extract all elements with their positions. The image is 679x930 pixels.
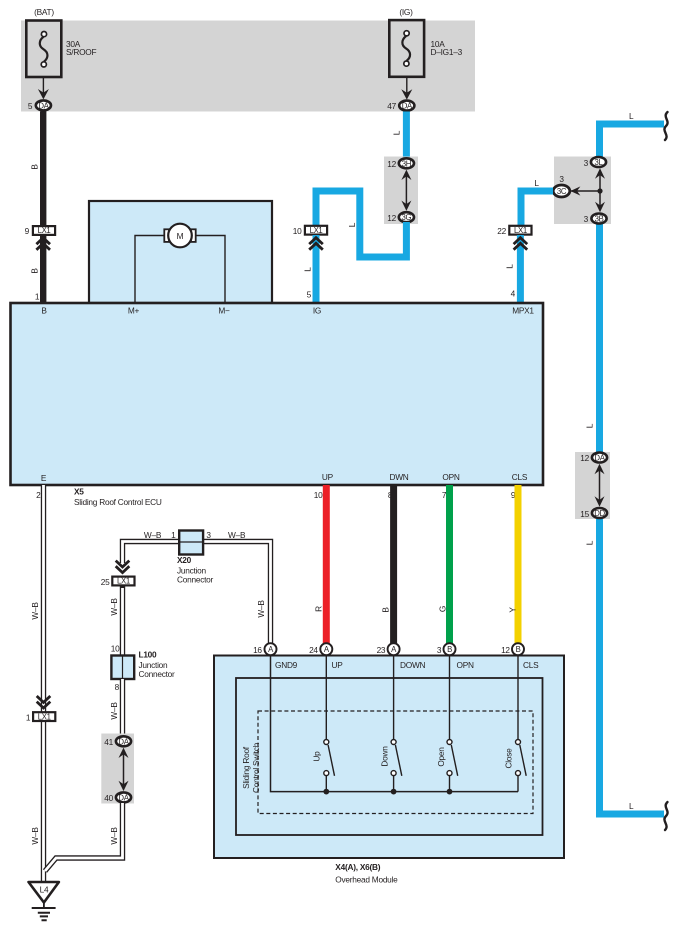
svg-text:Overhead Module: Overhead Module <box>335 875 398 885</box>
SECTION: battery column <box>25 7 97 303</box>
connector DD right <box>580 508 607 519</box>
connector B pin12 <box>501 643 524 655</box>
svg-text:M+: M+ <box>128 306 140 316</box>
wire Y cls <box>515 485 522 644</box>
svg-text:10: 10 <box>293 226 302 236</box>
SECTION: mpx column <box>497 178 553 303</box>
svg-text:W–B: W–B <box>144 530 162 540</box>
svg-text:L: L <box>505 264 515 269</box>
SECTION: module <box>214 643 564 884</box>
connector A pin23 <box>377 643 400 655</box>
double arrow 3H 3G <box>401 170 411 211</box>
chevron up below LX1 pin9 <box>36 236 50 303</box>
svg-text:OPN: OPN <box>457 660 474 670</box>
chevron up below LX1 pin10 <box>309 235 323 303</box>
svg-text:LX1: LX1 <box>310 226 323 235</box>
connector LX1 pin25 <box>101 577 135 587</box>
svg-text:Sliding Roof Control ECU: Sliding Roof Control ECU <box>74 497 162 507</box>
svg-text:4: 4 <box>511 289 516 299</box>
svg-text:W–B: W–B <box>109 827 119 845</box>
svg-text:DD: DD <box>594 509 605 518</box>
svg-text:B: B <box>41 306 47 316</box>
svg-text:10: 10 <box>111 644 120 654</box>
svg-text:GND9: GND9 <box>275 660 298 670</box>
svg-text:3C: 3C <box>557 187 567 196</box>
motor leads <box>135 236 225 303</box>
svg-text:12: 12 <box>387 213 396 223</box>
chevron down above LX1 pin1 <box>37 696 51 708</box>
svg-text:B: B <box>30 268 40 274</box>
chevron up below LX1 pin22 <box>514 235 528 303</box>
svg-text:B: B <box>516 645 521 654</box>
svg-text:3B: 3B <box>595 215 604 224</box>
connector A pin16 <box>253 643 276 655</box>
svg-text:R: R <box>313 606 323 612</box>
svg-text:DA: DA <box>594 454 605 463</box>
junction shield DA DA left <box>101 734 134 804</box>
svg-text:Up: Up <box>312 751 322 762</box>
wire R up <box>323 485 330 644</box>
svg-text:3: 3 <box>584 158 589 168</box>
wire L trunk 3B to DA <box>596 222 603 454</box>
fuse S/ROOF 30A <box>26 21 96 78</box>
switch open <box>436 655 458 795</box>
svg-text:Sliding Roof: Sliding Roof <box>241 746 251 789</box>
junction shield 3H 3G <box>384 157 418 225</box>
svg-text:X4(A), X6(B): X4(A), X6(B) <box>335 862 380 872</box>
wire W-B E down to ground <box>41 485 46 882</box>
svg-text:41: 41 <box>104 737 113 747</box>
svg-text:5: 5 <box>28 101 33 111</box>
SECTION: right cyan trunk <box>553 111 667 830</box>
svg-text:22: 22 <box>497 226 506 236</box>
break symbol bottom <box>664 802 667 830</box>
svg-text:15: 15 <box>580 509 589 519</box>
wire W-B X20 loop left <box>123 542 181 565</box>
motor M1 <box>164 224 195 248</box>
svg-text:UP: UP <box>322 472 334 482</box>
switch up <box>312 655 335 795</box>
svg-text:10: 10 <box>314 490 323 500</box>
svg-text:(IG): (IG) <box>399 7 413 17</box>
wire GND9 internal <box>271 655 519 792</box>
svg-text:3H: 3H <box>402 159 411 168</box>
svg-text:Connector: Connector <box>139 669 176 679</box>
svg-text:DOWN: DOWN <box>400 660 426 670</box>
svg-text:L: L <box>347 222 357 227</box>
svg-text:B: B <box>447 645 452 654</box>
connector 3C <box>553 174 570 197</box>
connector LX1 pin10 <box>293 226 327 236</box>
ground symbol <box>32 903 56 921</box>
fuse box shading band <box>21 21 475 112</box>
inner box <box>236 678 543 835</box>
svg-text:Y: Y <box>508 607 518 613</box>
svg-text:W–B: W–B <box>30 827 40 845</box>
svg-text:Control Switch: Control Switch <box>251 742 261 793</box>
switch down <box>380 655 402 795</box>
svg-text:3: 3 <box>584 214 589 224</box>
arrowhead into DA47 <box>401 89 412 99</box>
svg-text:12: 12 <box>501 645 510 655</box>
wire B thick DA to LX1 <box>40 111 46 225</box>
svg-text:25: 25 <box>101 577 110 587</box>
svg-text:2: 2 <box>36 490 41 500</box>
wire W-B DA40 to merge <box>45 803 123 871</box>
label Sliding Roof Control Switch <box>241 742 261 793</box>
svg-text:L: L <box>585 423 595 428</box>
svg-text:5: 5 <box>307 290 312 300</box>
dashed box <box>258 711 533 814</box>
svg-text:B: B <box>381 607 391 613</box>
svg-text:L100: L100 <box>139 650 158 660</box>
double arrow DA DD <box>595 464 605 507</box>
connector B pin3 <box>437 643 456 655</box>
svg-text:3L: 3L <box>595 158 604 167</box>
svg-text:16: 16 <box>253 645 262 655</box>
wire G opn <box>446 485 453 644</box>
ECU box X5 <box>11 303 544 485</box>
svg-text:47: 47 <box>387 101 396 111</box>
svg-text:X20: X20 <box>177 555 192 565</box>
connector 3H <box>387 158 414 169</box>
SECTION: ecu <box>11 201 544 644</box>
svg-text:IG: IG <box>313 306 321 316</box>
overhead module box <box>214 656 564 859</box>
svg-text:L: L <box>302 267 312 272</box>
svg-text:M−: M− <box>218 306 230 316</box>
SECTION: ground loop <box>26 485 271 920</box>
svg-text:L: L <box>392 130 402 135</box>
svg-text:D–IG1–3: D–IG1–3 <box>431 47 463 57</box>
connector DA right <box>580 453 607 464</box>
wire L LX1 pin22 up to 3C <box>521 191 553 225</box>
connector DA pin5 <box>28 100 51 111</box>
wire fuse to DA <box>42 77 44 94</box>
svg-text:DWN: DWN <box>389 472 408 482</box>
wire L trunk DD to bottom <box>600 517 665 814</box>
SECTION: ig column <box>293 7 463 303</box>
connector DA pin41 <box>104 736 131 747</box>
arrowhead into DA <box>38 89 49 99</box>
wire W-B LX1 to L100 <box>120 587 125 657</box>
svg-text:1: 1 <box>26 713 31 723</box>
svg-text:CLS: CLS <box>523 660 539 670</box>
connector LX1 pin1 <box>26 712 55 722</box>
svg-text:E: E <box>41 473 47 483</box>
connector A pin24 <box>309 643 332 655</box>
svg-text:LX1: LX1 <box>117 577 130 586</box>
fuse D-IG1-3 10A <box>389 20 462 77</box>
svg-text:LX1: LX1 <box>514 226 527 235</box>
svg-text:B: B <box>30 164 40 170</box>
svg-text:24: 24 <box>309 645 318 655</box>
break symbol top <box>664 112 667 140</box>
connector DA pin40 <box>104 792 131 803</box>
junction shield DA DD right <box>575 452 610 519</box>
svg-text:3: 3 <box>437 645 442 655</box>
svg-text:12: 12 <box>387 159 396 169</box>
connector LX1 pin22 <box>497 226 531 236</box>
junction connector L100 <box>111 650 175 680</box>
switch close <box>504 655 527 792</box>
svg-text:LX1: LX1 <box>38 712 51 721</box>
wire W-B X20 loop right <box>202 542 271 645</box>
connector 3L <box>584 157 606 168</box>
svg-text:Connector: Connector <box>177 575 214 585</box>
svg-text:9: 9 <box>25 226 30 236</box>
connector DA pin47 <box>387 101 414 111</box>
svg-text:UP: UP <box>332 660 344 670</box>
svg-text:Close: Close <box>504 748 514 769</box>
svg-text:Open: Open <box>436 747 446 767</box>
svg-text:L4: L4 <box>40 885 49 895</box>
svg-text:12: 12 <box>580 453 589 463</box>
double arrow DA41 DA40 <box>119 748 129 792</box>
svg-text:1: 1 <box>171 530 176 540</box>
svg-text:W–B: W–B <box>109 702 119 720</box>
junction connector X20 <box>177 531 214 585</box>
svg-text:Down: Down <box>380 746 390 767</box>
wire L staircase 3G to LX1 pin10 <box>316 191 406 257</box>
wire L trunk top horizontal <box>600 124 665 159</box>
svg-text:3G: 3G <box>402 213 412 222</box>
svg-text:L: L <box>629 801 634 811</box>
svg-text:8: 8 <box>115 682 120 692</box>
svg-text:W–B: W–B <box>109 598 119 616</box>
wire W-B L100 to DA41 <box>120 679 125 736</box>
svg-text:DA: DA <box>118 737 129 746</box>
svg-text:S/ROOF: S/ROOF <box>66 47 96 57</box>
svg-text:LX1: LX1 <box>38 226 51 235</box>
svg-text:OPN: OPN <box>442 472 459 482</box>
wire L DA47 to 3H <box>403 112 410 159</box>
svg-text:MPX1: MPX1 <box>512 306 534 316</box>
connector 3B <box>584 214 607 225</box>
svg-text:CLS: CLS <box>512 472 528 482</box>
wire B down <box>390 485 397 644</box>
svg-text:M: M <box>177 231 184 241</box>
svg-text:L: L <box>585 540 595 545</box>
svg-text:3: 3 <box>559 174 564 184</box>
svg-text:G: G <box>438 606 448 612</box>
SECTION: top gray band <box>21 21 475 112</box>
motor box <box>89 201 272 303</box>
svg-text:40: 40 <box>104 793 113 803</box>
svg-text:3: 3 <box>206 530 211 540</box>
svg-text:DA: DA <box>402 102 413 111</box>
svg-text:DA: DA <box>118 793 129 802</box>
svg-text:23: 23 <box>377 645 386 655</box>
svg-text:(BAT): (BAT) <box>34 7 54 17</box>
svg-text:W–B: W–B <box>228 530 246 540</box>
ground L4 <box>29 882 59 903</box>
junction shield 3L 3C 3B <box>554 157 611 225</box>
wire 3C branch <box>570 168 605 212</box>
svg-text:1: 1 <box>35 292 40 302</box>
svg-text:X5: X5 <box>74 487 84 497</box>
svg-text:W–B: W–B <box>30 602 40 620</box>
chevron down above LX1 pin25 <box>116 561 130 573</box>
connector LX1 pin9 <box>25 226 55 236</box>
svg-text:L: L <box>629 111 634 121</box>
svg-text:W–B: W–B <box>256 600 266 618</box>
svg-text:L: L <box>534 178 539 188</box>
connector 3G <box>387 212 414 223</box>
svg-text:DA: DA <box>38 101 49 110</box>
wire fuse to DA47 <box>406 77 408 94</box>
